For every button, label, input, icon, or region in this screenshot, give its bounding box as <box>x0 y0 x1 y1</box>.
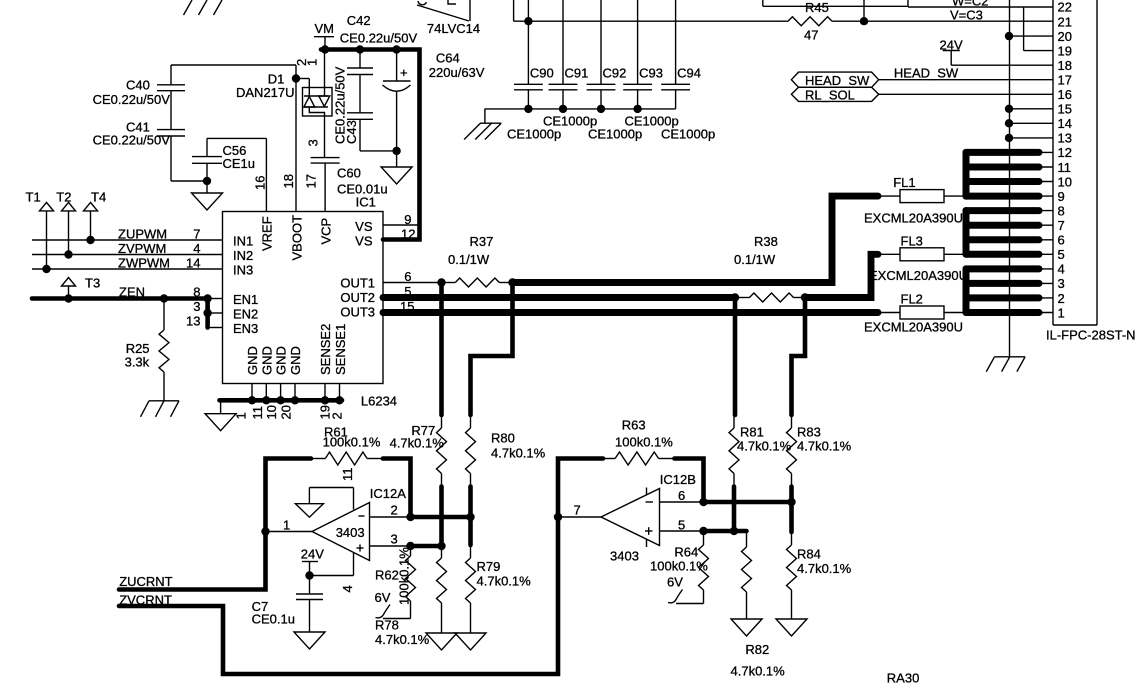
junction OUT1 left (R37/R77) <box>437 278 445 286</box>
wire OUT1 (thick) to FL1 <box>513 196 901 282</box>
pin number 14 <box>186 256 200 271</box>
svg-text:SENSE2: SENSE2 <box>318 324 333 375</box>
pin number 13 <box>186 314 200 329</box>
capacitor C90 CE1000p <box>514 0 554 109</box>
svg-text:17: 17 <box>1058 73 1072 88</box>
svg-text:3: 3 <box>1058 276 1065 291</box>
test point T1 <box>26 190 54 270</box>
wire R38 left to R81 (thick) <box>733 298 738 416</box>
svg-text:2: 2 <box>391 503 398 518</box>
resistor R78 4.7k0.1% <box>375 546 447 647</box>
svg-text:4.7k0.1%: 4.7k0.1% <box>737 439 792 454</box>
svg-text:10: 10 <box>264 405 279 419</box>
resistor R80 4.7k0.1% <box>466 415 546 487</box>
svg-text:7: 7 <box>574 503 581 518</box>
svg-text:100k0.1%: 100k0.1% <box>323 435 381 450</box>
svg-text:IC12B: IC12B <box>660 472 696 487</box>
wire R37 right to R80 (thick) <box>471 283 513 416</box>
pin name SENSE2 <box>318 324 333 375</box>
svg-text:14: 14 <box>1058 116 1072 131</box>
thick VM bus to VS pin 12 <box>321 50 420 240</box>
part number L6234 <box>361 394 397 409</box>
junction GND pin10 at bus <box>276 396 284 404</box>
pin number 7 <box>574 503 581 518</box>
capacitor C43 CE0.22u/50V (rotated label) <box>333 66 397 151</box>
wire D1 pin 3 to C60 <box>324 116 326 158</box>
junction C42 at VM bus <box>356 45 364 53</box>
test point T4 <box>84 190 107 241</box>
junction T4/ZUPWM <box>86 236 94 244</box>
pin name VBOOT <box>290 215 305 261</box>
svg-text:2: 2 <box>330 412 345 419</box>
pin name VS (9) <box>355 219 373 234</box>
svg-text:IN1: IN1 <box>233 234 253 249</box>
svg-text:IN3: IN3 <box>233 263 253 278</box>
svg-text:9: 9 <box>1058 189 1065 204</box>
ground for IC1 bus <box>205 400 236 430</box>
wire C60 to VCP pin 17 <box>324 163 326 211</box>
svg-text:FL3: FL3 <box>901 233 923 248</box>
svg-text:18: 18 <box>1058 58 1072 73</box>
junction pin 13 <box>1005 134 1013 142</box>
resistor R83 4.7k0.1% <box>787 415 852 487</box>
svg-text:VREF: VREF <box>260 216 275 251</box>
wire IC12B pin 5 <box>660 530 704 532</box>
connector pin numbers 1-22 <box>1058 0 1072 320</box>
diode D1 DAN217U <box>236 72 332 117</box>
net label ZVCRNT <box>119 593 172 608</box>
svg-text:+: + <box>400 65 408 80</box>
svg-text:7: 7 <box>193 227 200 242</box>
svg-text:T1: T1 <box>26 190 41 205</box>
wire stubs comb to connector pins 1-12 <box>1036 152 1053 312</box>
wire ZEN (thick) to EN pins <box>32 299 208 328</box>
pin number 3 (D1 common) <box>306 139 321 146</box>
svg-text:R82: R82 <box>745 642 769 657</box>
junction SENSE1 pin2 at bus <box>335 396 343 404</box>
svg-text:ZWPWM: ZWPWM <box>118 256 170 271</box>
svg-text:R83: R83 <box>797 425 821 440</box>
junction ZEN/R25 <box>160 294 168 302</box>
wire pin 2 node (thick) <box>411 515 471 520</box>
pin number 20 <box>279 405 294 419</box>
svg-text:5: 5 <box>678 518 685 533</box>
svg-text:16: 16 <box>1058 87 1072 102</box>
svg-text:12: 12 <box>1058 145 1072 160</box>
svg-text:ZUCRNT: ZUCRNT <box>119 574 172 589</box>
wire pin 3 node (thick) <box>411 544 442 549</box>
svg-text:6: 6 <box>404 269 411 284</box>
chassis ground for connector <box>986 357 1025 372</box>
net flag RL_SOL <box>791 87 878 102</box>
svg-text:EN1: EN1 <box>233 292 258 307</box>
junction GND pin11 at bus <box>262 396 270 404</box>
pin name GND <box>288 346 303 375</box>
svg-text:OUT3: OUT3 <box>340 305 375 320</box>
resistor R62 100k0.1% <box>375 546 416 619</box>
svg-text:CE0.22u/50V: CE0.22u/50V <box>93 133 171 148</box>
svg-text:DAN217U: DAN217U <box>236 85 295 100</box>
wire R80 to pin2 (thick) <box>468 487 473 546</box>
net label HEAD_SW <box>894 66 959 81</box>
svg-text:ZUPWM: ZUPWM <box>118 227 167 242</box>
capacitor C40 CE0.22u/50V <box>93 65 185 107</box>
pin number 11 <box>250 406 265 420</box>
svg-text:24V: 24V <box>301 547 324 562</box>
svg-text:GND: GND <box>259 346 274 375</box>
svg-text:CE1000p: CE1000p <box>588 127 642 142</box>
wire ZUPWM to IN1 <box>32 239 223 241</box>
junction C90 rail <box>524 105 532 113</box>
svg-text:11: 11 <box>1058 160 1072 175</box>
wire jog to connector pin 19 <box>1024 7 1053 51</box>
svg-text:47: 47 <box>804 28 818 43</box>
pin name IN3 <box>233 263 253 278</box>
pin name IN1 <box>233 234 253 249</box>
junction pin 15 <box>1005 105 1013 113</box>
svg-text:4.7k0.1%: 4.7k0.1% <box>477 574 532 589</box>
wire 24V to pin 18 <box>951 64 1053 66</box>
pin number 5 <box>678 518 685 533</box>
svg-text:C43: C43 <box>344 120 359 144</box>
pin name EN1 <box>233 292 258 307</box>
svg-text:ZVPWM: ZVPWM <box>118 241 166 256</box>
power flag 24V (IC12A) <box>301 547 324 576</box>
svg-text:IC12A: IC12A <box>370 486 406 501</box>
junction D1 pin2 / VBOOT <box>292 74 300 82</box>
wire ZVPWM to IN2 <box>32 254 223 256</box>
junction OUT1 right (R37/R80) <box>508 278 516 286</box>
value label C90 <box>507 127 561 142</box>
chassis ground for R25 <box>141 401 180 417</box>
pin name VS (12) <box>355 234 373 249</box>
svg-text:VS: VS <box>355 234 373 249</box>
svg-text:100k0.1%: 100k0.1% <box>650 559 708 574</box>
pin name OUT3 <box>340 305 375 320</box>
wire D1 pin 2 to VBOOT line <box>296 79 309 88</box>
svg-text:11: 11 <box>250 406 265 420</box>
svg-text:R64: R64 <box>674 545 698 560</box>
wire OUT2 (thick) to FL3 <box>805 254 900 297</box>
wire R37 left to R77 (thick) <box>439 283 444 416</box>
pin 4 power of IC12A <box>310 553 354 576</box>
wire R77 to pin3 (thick) <box>439 487 444 547</box>
pin name IN2 <box>233 248 253 263</box>
svg-text:VBOOT: VBOOT <box>290 215 305 261</box>
junction pin 14 <box>1005 119 1013 127</box>
connector IL-FPC-28ST-N body <box>1046 0 1136 343</box>
pin name GND <box>274 346 289 375</box>
svg-text:L6234: L6234 <box>361 394 397 409</box>
svg-text:10: 10 <box>1058 174 1072 189</box>
junction T2/ZVPWM <box>64 250 72 258</box>
svg-text:8: 8 <box>1058 203 1065 218</box>
svg-text:C42: C42 <box>347 13 371 28</box>
thick ground bus under IC1 <box>220 398 343 403</box>
svg-text:FL1: FL1 <box>893 175 915 190</box>
svg-text:15: 15 <box>1058 102 1072 117</box>
capacitor C93 CE1000p <box>623 0 663 109</box>
svg-text:HEAD_SW: HEAD_SW <box>894 66 959 81</box>
svg-text:3403: 3403 <box>336 525 365 540</box>
inverter gate 74LVC14 (partial, cut at top) <box>417 0 480 36</box>
test point T2 <box>56 190 75 255</box>
pin number 1 (D1) <box>305 59 320 66</box>
wire OUT1 pin to R37 <box>383 282 442 284</box>
wire D1 pin 1 to VM bus <box>324 50 326 88</box>
wire C41 bottom to C56 node <box>171 136 207 181</box>
wire R63 to pin 6 node (thick) <box>674 459 703 503</box>
pin number 4 <box>193 241 200 256</box>
wire ground line vertical <box>1009 0 1011 357</box>
pin number 16 (VREF) <box>253 176 268 190</box>
svg-text:19: 19 <box>1058 43 1072 58</box>
wire EN2 stub <box>208 312 223 314</box>
wire OUT3 (thick) to FL2 <box>383 309 900 316</box>
pin number 6 <box>678 488 685 503</box>
resistor R61 100k0.1% <box>311 425 383 466</box>
op-amp IC12B 3403 <box>601 472 696 564</box>
svg-text:IC1: IC1 <box>356 195 376 210</box>
junction SENSE2 pin19 at bus <box>321 396 329 404</box>
svg-text:4.7k0.1%: 4.7k0.1% <box>390 436 445 451</box>
resistor R25 3.3k <box>125 299 169 401</box>
ground for R79 <box>455 633 486 650</box>
svg-text:VS: VS <box>355 219 373 234</box>
junction R77/R78/pin3 <box>437 542 445 550</box>
svg-text:6V: 6V <box>667 575 683 590</box>
svg-text:EN2: EN2 <box>233 307 258 322</box>
svg-text:14: 14 <box>186 256 200 271</box>
svg-text:C64: C64 <box>436 51 460 66</box>
pin number 15 <box>400 299 414 314</box>
wire IC12A pin 1 <box>266 531 313 533</box>
svg-text:C60: C60 <box>337 166 361 181</box>
filter FL3 EXCML20A390U <box>869 233 968 283</box>
capacitor C94 CE1000p <box>661 0 701 109</box>
wire IC12A pin 2 <box>370 516 411 518</box>
net label ZVPWM <box>118 241 166 256</box>
designator IC1 <box>356 195 376 210</box>
ground for R78 <box>426 633 457 650</box>
svg-text:4.7k0.1%: 4.7k0.1% <box>797 439 852 454</box>
wire connector pin 22 <box>1024 6 1053 8</box>
wire VS pin 9 <box>383 224 420 226</box>
box outline W=C2 (cut at top) <box>908 0 1024 7</box>
resistor R79 4.7k0.1% <box>466 545 532 633</box>
svg-text:C94: C94 <box>677 66 701 81</box>
svg-text:VM: VM <box>315 21 335 36</box>
box outline above R45 (cut at top) <box>763 0 908 6</box>
wire R61 to pin 2 node (thick) <box>383 459 411 518</box>
pin number 3 <box>193 299 200 314</box>
wire connector pin 15 <box>1009 108 1053 110</box>
svg-text:20: 20 <box>1058 29 1072 44</box>
svg-text:2: 2 <box>1058 291 1065 306</box>
svg-text:20: 20 <box>279 405 294 419</box>
junction C40/C41/C56 ground node <box>203 177 211 185</box>
svg-text:FL2: FL2 <box>901 292 923 307</box>
designator RA30 <box>887 671 920 683</box>
junction C91 rail <box>559 105 567 113</box>
wire pin7 to R63 (thick) <box>558 459 603 518</box>
wire ZWPWM to IN3 <box>32 268 223 270</box>
net label ZEN <box>119 285 145 300</box>
junction pin 20 / ground line <box>1005 32 1013 40</box>
svg-text:3.3k: 3.3k <box>125 355 150 370</box>
test point T3 <box>62 276 101 299</box>
value label C92 <box>588 127 642 142</box>
junction C90 at top wire <box>524 17 532 25</box>
svg-text:VCP: VCP <box>319 218 334 245</box>
junction GND pin20 at bus <box>291 396 299 404</box>
svg-text:4.7k0.1%: 4.7k0.1% <box>375 632 430 647</box>
svg-text:CE1000p: CE1000p <box>661 127 715 142</box>
svg-text:7: 7 <box>1058 218 1065 233</box>
junction R62/pin3 <box>406 542 414 550</box>
junction T1/ZWPWM <box>42 265 50 273</box>
junction IC12A pin 1 <box>261 527 269 535</box>
wire OUT2 (thick) to R38 <box>383 294 735 301</box>
wire connector pin 13 <box>1009 137 1053 139</box>
svg-text:GND: GND <box>288 346 303 375</box>
svg-text:C92: C92 <box>603 66 627 81</box>
svg-text:6: 6 <box>1058 233 1065 248</box>
thick bus comb pins 9-12 (FL1 net) <box>966 152 1039 196</box>
net label ZUCRNT <box>119 574 172 589</box>
wire C56 to VREF pin 16 <box>207 138 266 211</box>
net label V=C3 <box>950 8 983 23</box>
net flag HEAD_SW <box>791 72 878 88</box>
capacitor C64 220u/63V (electrolytic) <box>383 50 485 168</box>
svg-text:R63: R63 <box>622 418 646 433</box>
svg-text:R78: R78 <box>375 618 399 633</box>
pin number 5 <box>404 284 411 299</box>
svg-text:OUT1: OUT1 <box>340 276 375 291</box>
net label ZWPWM <box>118 256 170 271</box>
pin number 2 (D1) <box>294 59 309 66</box>
svg-text:13: 13 <box>186 314 200 329</box>
svg-text:3: 3 <box>306 139 321 146</box>
ground for C56 <box>192 181 223 210</box>
svg-text:HEAD_SW: HEAD_SW <box>805 73 870 88</box>
svg-text:OUT2: OUT2 <box>340 290 375 305</box>
pin number 10 <box>264 405 279 419</box>
junction VM/D1 pin1 <box>321 45 329 53</box>
svg-text:21: 21 <box>1058 14 1072 29</box>
svg-text:100k0.1%: 100k0.1% <box>397 547 412 605</box>
svg-text:GND: GND <box>245 346 260 375</box>
junction C92 rail <box>597 105 605 113</box>
capacitor C92 CE1000p <box>587 0 627 109</box>
svg-text:R81: R81 <box>740 425 764 440</box>
svg-text:R45: R45 <box>805 0 829 15</box>
pin name VREF <box>260 216 275 251</box>
capacitor C56 CE1u <box>192 138 255 181</box>
IC IC1 L6234 body <box>223 212 384 384</box>
power flag 24V (connector) <box>940 37 963 65</box>
ground for C64 <box>381 167 412 184</box>
pin number 6 <box>404 269 411 284</box>
svg-text:6: 6 <box>678 488 685 503</box>
thick bus comb pins 5-8 (FL3 net) <box>966 211 1039 255</box>
svg-text:T3: T3 <box>85 276 100 291</box>
svg-text:18: 18 <box>281 174 296 188</box>
value label C94 <box>661 127 715 142</box>
svg-text:C93: C93 <box>639 66 663 81</box>
ground for C7 <box>294 632 325 649</box>
svg-text:SENSE1: SENSE1 <box>333 324 348 375</box>
pin number 11 <box>340 468 355 482</box>
svg-text:22: 22 <box>1058 0 1072 15</box>
svg-text:CE0.1u: CE0.1u <box>252 612 295 627</box>
pin number 2 <box>391 503 398 518</box>
value label C93 <box>625 114 679 129</box>
junction EN1 <box>203 294 211 302</box>
junction C93 rail <box>633 105 641 113</box>
pin name VCP <box>319 218 334 245</box>
pin name GND <box>259 346 274 375</box>
junction OUT2 left (R38/R81) <box>731 293 739 301</box>
resistor R82 4.7k0.1% <box>731 531 786 679</box>
resistor R81 4.7k0.1% <box>729 415 792 487</box>
svg-text:13: 13 <box>1058 131 1072 146</box>
capacitor C41 CE0.22u/50V <box>93 91 185 148</box>
svg-text:IN2: IN2 <box>233 248 253 263</box>
net label W=C2 (partially cut) <box>952 0 988 9</box>
svg-text:12: 12 <box>401 227 415 242</box>
svg-text:4: 4 <box>340 585 355 592</box>
svg-text:CE0.22u/50V: CE0.22u/50V <box>340 31 418 46</box>
resistor R45 <box>779 0 836 43</box>
wire ZUCRNT (thick) to IC12A output and R61 <box>119 459 311 590</box>
svg-text:CE1000p: CE1000p <box>507 127 561 142</box>
junction OUT2 right (R38/R83) <box>801 293 809 301</box>
svg-text:6V: 6V <box>375 590 391 605</box>
svg-text:R80: R80 <box>491 431 515 446</box>
pin name OUT2 <box>340 290 375 305</box>
svg-text:4: 4 <box>193 241 200 256</box>
net label ZUPWM <box>118 227 167 242</box>
pin number 1 <box>283 518 290 533</box>
partial chassis ground (cut at top edge) <box>184 0 223 15</box>
svg-text:3: 3 <box>193 299 200 314</box>
svg-text:220u/63V: 220u/63V <box>429 65 485 80</box>
svg-text:C91: C91 <box>565 66 589 81</box>
wire GND/SENSE pin stubs <box>252 384 340 401</box>
wire connector pin 14 <box>1009 122 1053 124</box>
pin number 3 <box>391 532 398 547</box>
svg-text:3: 3 <box>391 532 398 547</box>
svg-text:ZVCRNT: ZVCRNT <box>119 593 172 608</box>
wire EN3 stub <box>208 327 223 329</box>
filter FL1 EXCML20A390U <box>864 175 966 226</box>
pin number 12 <box>401 227 415 242</box>
wire R45 to connector pin 21 (net V=C3) <box>834 20 1053 22</box>
svg-text:8: 8 <box>193 285 200 300</box>
ground rail under C90-C94 <box>485 108 676 110</box>
svg-text:1: 1 <box>305 59 320 66</box>
junction R61/pin2 <box>406 513 414 521</box>
pin number 19 <box>318 405 333 419</box>
pin number 8 <box>193 285 200 300</box>
svg-text:RA30: RA30 <box>887 671 920 683</box>
svg-text:CE0.22u/50V: CE0.22u/50V <box>93 92 171 107</box>
wire R81 to pin5 (thick) <box>732 487 737 532</box>
svg-text:RL_SOL: RL_SOL <box>805 87 855 102</box>
wire C40 top to VBOOT node <box>171 65 296 79</box>
svg-text:4.7k0.1%: 4.7k0.1% <box>491 446 546 461</box>
